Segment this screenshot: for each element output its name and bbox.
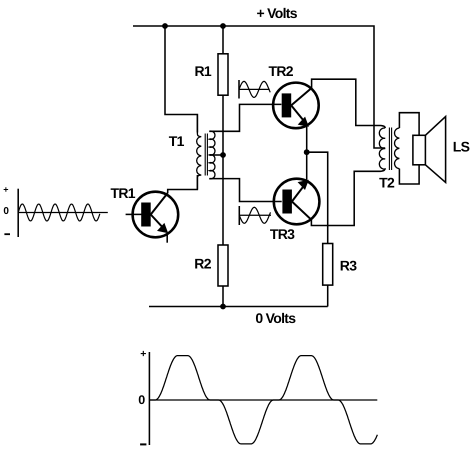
wire node to R3 top bbox=[307, 152, 328, 243]
svg-text:LS: LS bbox=[453, 139, 470, 155]
label TR2 bbox=[269, 63, 294, 79]
svg-text:R1: R1 bbox=[195, 63, 212, 79]
transistor TR2 bbox=[273, 83, 319, 129]
node bottom-rail junction at R2 bbox=[220, 304, 226, 310]
resistor R1 bbox=[218, 54, 228, 95]
label output 0 bbox=[138, 393, 145, 407]
svg-text:+: + bbox=[3, 185, 8, 195]
wire TR2 emitter down to node bbox=[306, 125, 308, 153]
label R3 bbox=[340, 258, 357, 274]
wire node to TR3 emitter bbox=[306, 152, 308, 182]
wire +Volts rail bbox=[133, 26, 385, 148]
wire T1 secondary bottom to TR3 base bbox=[209, 179, 281, 202]
wire TR1 base lead bbox=[126, 213, 142, 215]
label T1 bbox=[169, 133, 185, 149]
svg-text:+ Volts: + Volts bbox=[257, 5, 298, 21]
label T2 bbox=[379, 175, 395, 191]
wire TR2 collector to T2 primary top bbox=[312, 79, 386, 128]
wire 0 Volts rail bbox=[149, 306, 328, 308]
node top-rail junction A (x=165) bbox=[162, 23, 168, 29]
svg-text:T1: T1 bbox=[169, 133, 185, 149]
svg-text:TR3: TR3 bbox=[270, 226, 295, 242]
label 0 Volts bbox=[255, 310, 296, 326]
svg-text:0: 0 bbox=[138, 393, 145, 407]
transistor TR1 bbox=[133, 192, 179, 238]
resistor R3 bbox=[323, 244, 333, 286]
waveform icon at TR2 base (in phase) bbox=[239, 80, 270, 99]
svg-text:R3: R3 bbox=[340, 258, 357, 274]
svg-text:R2: R2 bbox=[194, 256, 211, 272]
label input minus bbox=[4, 233, 10, 235]
wire TR3 collector to T2 primary bottom bbox=[311, 168, 385, 225]
svg-text:TR1: TR1 bbox=[111, 185, 136, 201]
label LS bbox=[453, 139, 470, 155]
transistor TR3 bbox=[274, 179, 320, 225]
wire +V rail to T1 primary top bbox=[165, 26, 197, 133]
label input 0 bbox=[3, 206, 9, 217]
wire T1 centre tap bbox=[209, 154, 223, 156]
label TR1 bbox=[111, 185, 136, 201]
node emitter junction bbox=[304, 149, 310, 155]
output waveform axis bbox=[149, 352, 377, 445]
label R1 bbox=[195, 63, 212, 79]
resistor R2 bbox=[218, 245, 228, 286]
label R2 bbox=[194, 256, 211, 272]
label output + bbox=[140, 348, 146, 360]
svg-text:+: + bbox=[140, 348, 146, 360]
node top-rail junction B (x=223) bbox=[220, 23, 226, 29]
wire R3 bottom bbox=[327, 285, 329, 306]
wire T2 secondary top to LS bbox=[399, 113, 419, 136]
svg-text:TR2: TR2 bbox=[269, 63, 294, 79]
wire TR1 emitter stub bbox=[166, 234, 168, 243]
node T1 centre-tap junction bbox=[220, 152, 226, 158]
wire R1 top bbox=[222, 26, 224, 54]
wire TR1 collector to T1 primary bottom bbox=[168, 175, 198, 193]
transformer T1 bbox=[197, 115, 215, 190]
input waveform sine bbox=[18, 204, 100, 221]
wire bias line R1 bottom to R2 top (through T1 centre-tap) bbox=[222, 95, 224, 245]
input waveform axis bbox=[18, 189, 108, 237]
output waveform curve bbox=[149, 356, 377, 444]
label input + bbox=[3, 185, 8, 195]
svg-text:T2: T2 bbox=[379, 175, 395, 191]
svg-text:0 Volts: 0 Volts bbox=[255, 310, 296, 326]
transformer T2 bbox=[379, 128, 399, 171]
label output minus bbox=[140, 443, 146, 445]
wire T2 secondary bottom to LS bbox=[399, 165, 419, 184]
label TR3 bbox=[270, 226, 295, 242]
waveform icon at TR3 base (antiphase) bbox=[239, 206, 271, 225]
wire R2 bottom bbox=[222, 286, 224, 307]
label + Volts bbox=[257, 5, 298, 21]
loudspeaker LS bbox=[413, 117, 446, 183]
svg-text:0: 0 bbox=[3, 206, 9, 217]
wire T1 secondary top to TR2 base bbox=[209, 104, 281, 131]
